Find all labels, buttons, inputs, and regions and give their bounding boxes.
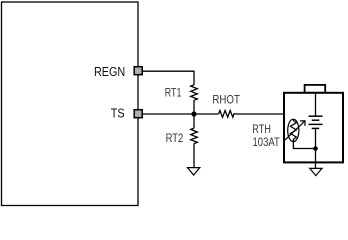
battery cell plate short 1: [312, 119, 320, 121]
pin label TS: [111, 106, 125, 121]
battery pack box: [284, 93, 343, 163]
svg-text:REGN: REGN: [94, 64, 125, 79]
wire RT1 bottom to TS node: [193, 100, 195, 114]
ground (battery pack): [310, 168, 322, 175]
resistor RT1: [191, 85, 198, 101]
thermistor arrow: [285, 121, 305, 140]
wire pack node to ground: [315, 149, 317, 169]
label RTH: [252, 122, 271, 136]
svg-text:RT2: RT2: [166, 131, 184, 145]
label RT2: [166, 131, 184, 145]
wire box top to battery: [315, 93, 317, 116]
IC outline: [2, 2, 139, 206]
node pack junction dot: [313, 146, 318, 151]
svg-text:RT1: RT1: [165, 86, 182, 100]
battery pack connector tab: [305, 85, 326, 93]
ground (RT2): [188, 168, 200, 175]
resistor RT2: [191, 128, 198, 144]
resistor RHOT: [219, 111, 236, 118]
wire thermistor bottom to pack node: [293, 142, 315, 149]
svg-text:103AT: 103AT: [253, 135, 281, 149]
pin TS: [134, 110, 142, 118]
thermistor RTH zigzag element: [290, 119, 296, 141]
pin REGN: [134, 67, 142, 75]
label RHOT: [212, 92, 240, 106]
battery cell plate long 2: [309, 123, 323, 125]
thermistor RTH body: [288, 119, 299, 141]
battery cell plate long 1: [309, 115, 323, 117]
wire REGN pin to RT1 top: [141, 71, 194, 85]
wire RT2 bottom to ground: [193, 144, 195, 168]
label 103AT: [253, 135, 281, 149]
wire battery bottom to pack node: [315, 128, 317, 148]
battery cell plate short 2: [312, 127, 320, 129]
svg-text:RTH: RTH: [252, 122, 271, 136]
pin label REGN: [94, 64, 125, 79]
label RT1: [165, 86, 182, 100]
wire RHOT right to thermistor: [236, 114, 294, 119]
wire TS node down to RT2: [193, 114, 195, 128]
svg-text:TS: TS: [111, 106, 125, 121]
wire TS pin to RHOT left: [141, 113, 219, 115]
svg-text:RHOT: RHOT: [212, 92, 240, 106]
node TS junction dot: [191, 111, 196, 116]
